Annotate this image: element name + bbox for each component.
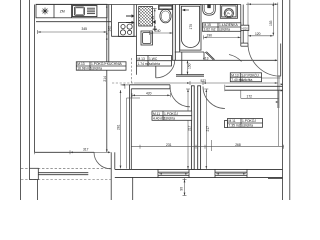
- svg-text:1.POKÓJ: 1.POKÓJ: [164, 111, 178, 116]
- dashed opening living room: [112, 58, 134, 83]
- dim line hall vert 1: [246, 3, 278, 109]
- svg-text:170: 170: [189, 24, 193, 30]
- sink drainer hatch: [87, 8, 95, 13]
- svg-text:281: 281: [117, 124, 121, 130]
- dimension 345 line: [38, 30, 107, 34]
- svg-text:90: 90: [179, 187, 183, 191]
- window 2: [215, 169, 247, 177]
- corridor wall north: [176, 74, 204, 76]
- svg-text:szlichta: szlichta: [241, 78, 252, 82]
- svg-text:3.62 m2: 3.62 m2: [204, 28, 216, 32]
- bottom wall bottom line: [115, 177, 283, 179]
- bathtub outer: [180, 5, 201, 51]
- wall wc west: [136, 5, 138, 75]
- svg-text:szlichta: szlichta: [91, 67, 102, 71]
- hob burner 1: [121, 25, 125, 29]
- washing machine inner: [222, 6, 236, 17]
- balcony dashed lines: [21, 168, 111, 179]
- label box bathroom: [203, 23, 249, 32]
- hall door leaf: [280, 44, 282, 77]
- wall left inner: [29, 0, 31, 168]
- svg-text:M.13: M.13: [77, 62, 84, 66]
- washbasin tap: [208, 5, 211, 8]
- wall section mark: [225, 121, 228, 128]
- wall hob side: [110, 5, 112, 37]
- balcony sill: [38, 172, 88, 174]
- svg-text:szlichta: szlichta: [242, 124, 253, 128]
- svg-text:150: 150: [187, 63, 191, 69]
- wall left outer: [20, 0, 22, 200]
- svg-text:153: 153: [269, 20, 273, 26]
- wall wc east inner: [174, 5, 176, 61]
- svg-text:231: 231: [166, 143, 172, 147]
- wall right outer: [282, 0, 284, 200]
- hob burner 2: [127, 24, 132, 29]
- sink unit box: [72, 6, 97, 17]
- svg-text:1.POKÓJ: 1.POKÓJ: [242, 118, 256, 123]
- bathroom door arc: [229, 55, 242, 62]
- svg-text:szlichta: szlichta: [149, 62, 160, 66]
- bathroom west wall: [179, 5, 181, 53]
- dim 523 line: [134, 81, 278, 85]
- svg-text:16.98 m2: 16.98 m2: [77, 67, 91, 71]
- room B north wall: [226, 85, 283, 87]
- svg-text:M.15: M.15: [204, 23, 211, 27]
- svg-text:1.ŁAZIENKA: 1.ŁAZIENKA: [219, 23, 238, 27]
- dim 90 below wall: [183, 178, 187, 196]
- bottom right ledge line: [268, 178, 283, 180]
- dim 420: [132, 93, 170, 97]
- shaft hatched box: [139, 7, 153, 27]
- svg-text:1.POKÓJ+KUCHNIA: 1.POKÓJ+KUCHNIA: [91, 61, 122, 66]
- room A north wall: [130, 84, 171, 86]
- hall door arc: [248, 44, 281, 77]
- hob: [119, 23, 135, 37]
- svg-text:M.11: M.11: [153, 112, 160, 116]
- dimension arrowheads: [38, 3, 283, 195]
- svg-text:420: 420: [146, 92, 152, 96]
- room A door arc: [170, 87, 190, 107]
- dim 217 line b: [204, 89, 208, 169]
- counter front line: [36, 21, 111, 23]
- svg-text:345: 345: [82, 27, 88, 31]
- balcony door arc: [94, 152, 111, 169]
- dim lines room B right: [225, 75, 281, 146]
- svg-text:95: 95: [151, 16, 155, 20]
- counter divider 2: [71, 4, 73, 17]
- hob burner 4: [128, 30, 132, 34]
- wall kitchen right / dim line: [106, 5, 108, 153]
- wall bathroom south jamb: [203, 52, 205, 60]
- wall top: [36, 4, 241, 6]
- washer wc box: [141, 31, 153, 45]
- svg-text:140: 140: [155, 29, 161, 33]
- wc door leaf: [155, 60, 157, 78]
- washer wc inner: [143, 33, 151, 44]
- wall bathroom south left: [175, 51, 204, 53]
- svg-text:317: 317: [83, 147, 89, 151]
- svg-text:szlichta: szlichta: [219, 28, 230, 32]
- window 1: [158, 169, 189, 177]
- svg-text:ZM: ZM: [60, 10, 65, 14]
- label box room A: [152, 111, 192, 120]
- label box wc: [137, 56, 172, 67]
- wall wc south: [137, 60, 156, 62]
- window area edge low: [132, 177, 134, 200]
- dim 190: [204, 35, 241, 39]
- wall hob right: [133, 5, 135, 37]
- facade step vline: [110, 152, 112, 200]
- wall left finish line: [34, 5, 36, 153]
- room B door arc: [203, 87, 225, 109]
- svg-text:7.35 m2: 7.35 m2: [229, 124, 241, 128]
- partition bar 1: [191, 86, 194, 170]
- tub vent arrow: [182, 9, 185, 12]
- facade step vline 2: [114, 152, 116, 169]
- svg-text:1.WC: 1.WC: [149, 57, 158, 61]
- label box living room: [76, 62, 126, 70]
- vent arrow 2: [126, 21, 135, 25]
- dark marker arrow: [153, 20, 156, 24]
- balcony side wall: [37, 180, 39, 201]
- balcony door wall line: [35, 151, 95, 153]
- svg-text:M.13: M.13: [231, 73, 238, 77]
- toilet bowl: [160, 9, 171, 23]
- room A door leaf: [169, 85, 171, 89]
- svg-text:217: 217: [188, 125, 192, 131]
- wall bathroom east inner: [242, 5, 244, 44]
- dim 217 line a: [186, 89, 190, 169]
- corridor north line: [156, 59, 277, 61]
- toilet tank: [159, 6, 173, 10]
- wall bathroom east: [240, 5, 242, 47]
- svg-text:214: 214: [103, 76, 107, 82]
- svg-text:1.74 m2: 1.74 m2: [138, 62, 150, 66]
- dim 150 vline: [187, 60, 189, 74]
- svg-text:413: 413: [203, 57, 209, 61]
- wall hob bottom: [111, 35, 136, 37]
- bottom wall top line: [115, 168, 283, 170]
- wall right outer 2: [289, 0, 291, 200]
- svg-text:S.P POKÓJ: S.P POKÓJ: [241, 72, 259, 77]
- wc door arc: [156, 60, 175, 78]
- washing machine drum: [224, 9, 233, 18]
- svg-text:523: 523: [201, 79, 207, 83]
- dim 140 line: [150, 31, 173, 35]
- svg-text:120: 120: [255, 32, 261, 36]
- dark tick cross: [153, 27, 157, 31]
- wall bathroom south right: [241, 42, 248, 44]
- corridor wall north 2: [176, 75, 204, 77]
- cooktop star symbol: [42, 8, 49, 15]
- svg-text:217: 217: [206, 126, 210, 132]
- dim 281 lines: [121, 90, 141, 169]
- dim 317 ticks: [35, 150, 111, 154]
- label box room right: [230, 73, 261, 82]
- vent arrow 1: [126, 14, 135, 18]
- washing machine Pr: [220, 5, 237, 19]
- washbasin: [203, 5, 216, 16]
- kitchen counter outline: [36, 4, 107, 17]
- wall wc east: [172, 5, 174, 61]
- wall kitchen right second: [108, 5, 110, 62]
- counter divider 1: [53, 4, 55, 17]
- dim toilet vertical 95: [153, 9, 157, 30]
- svg-text:M.13: M.13: [138, 57, 145, 61]
- svg-text:268: 268: [235, 143, 241, 147]
- svg-text:172: 172: [247, 95, 253, 99]
- sink bowl: [74, 7, 84, 15]
- balcony pier: [30, 168, 39, 179]
- dim 231 268 line: [132, 140, 284, 151]
- svg-text:162: 162: [108, 26, 112, 32]
- hob burner 3: [120, 30, 125, 35]
- svg-text:Pr: Pr: [227, 11, 230, 15]
- label box room B: [228, 119, 263, 128]
- wall bath left lower: [181, 52, 183, 75]
- svg-text:szlichta: szlichta: [164, 117, 175, 121]
- svg-text:190: 190: [207, 33, 213, 37]
- bathtub inner: [181, 6, 199, 47]
- svg-text:H220: H220: [242, 26, 249, 30]
- room A west wall: [129, 85, 131, 170]
- partition bar 2: [198, 86, 201, 170]
- corridor west tick: [121, 84, 126, 86]
- bathroom door leaf: [205, 52, 213, 60]
